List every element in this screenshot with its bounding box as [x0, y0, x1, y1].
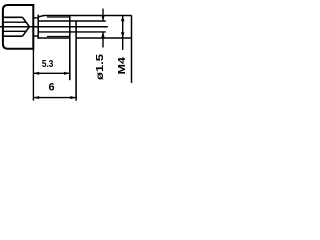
neck line upper: [33, 17, 38, 19]
thread minor dia lower: [47, 35, 70, 37]
neck line lower: [33, 35, 38, 37]
hex socket wall upper: [4, 16, 23, 18]
arrow dia1.5 lower (pointing up): [101, 32, 105, 38]
dia 1.5 dim line lower: [102, 32, 104, 48]
right border: [131, 16, 133, 84]
thread minor dia upper: [47, 16, 70, 18]
socket bottom cone: [23, 17, 30, 36]
hex socket edge lower: [4, 30, 27, 32]
dim line 6: [33, 97, 76, 99]
M4 dim line: [122, 16, 124, 51]
thread root face: [37, 15, 39, 39]
centerline: [0, 26, 108, 28]
dim line 5.3: [33, 72, 69, 74]
arrow dia1.5 upper (pointing down): [101, 15, 105, 21]
hole line lower / tip bottom: [38, 31, 106, 33]
arrow 5.3 left: [33, 72, 39, 75]
hex socket wall lower: [4, 35, 23, 37]
arrow M4 bottom (pointing down): [121, 32, 125, 38]
svg-text:M4: M4: [116, 57, 128, 75]
hole line upper / tip top: [38, 20, 106, 22]
arrow 6 right: [70, 96, 76, 99]
svg-text:5.3: 5.3: [42, 59, 54, 70]
screw head outline: [3, 5, 33, 49]
arrow 5.3 right: [64, 72, 70, 75]
hex socket edge upper: [4, 21, 27, 23]
svg-text:6: 6: [48, 82, 54, 94]
thread OD bottom: [39, 37, 70, 39]
M4 lower extension line: [76, 37, 132, 39]
head face extension: [32, 49, 34, 101]
thread OD top + extension: [39, 16, 132, 17]
tip end face + ext: [75, 21, 77, 101]
arrow M4 top (pointing up): [121, 16, 125, 22]
arrow 6 left: [33, 96, 39, 99]
dia 1.5 dim line upper: [102, 9, 104, 21]
svg-text:ø1.5: ø1.5: [95, 53, 106, 80]
thread end face + ext: [69, 16, 71, 81]
